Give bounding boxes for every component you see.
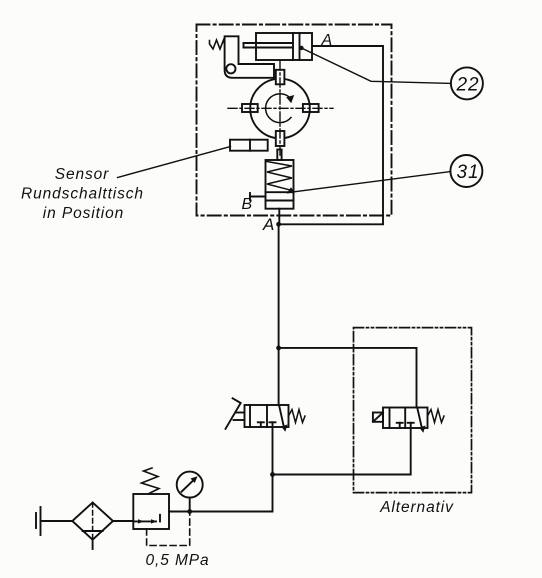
wire valve V1 bottom to supply (272, 427, 274, 512)
valve V1 roller lever actuator (226, 398, 245, 429)
valve V1 body (245, 405, 289, 427)
regulator flow arrow (133, 515, 160, 524)
wire alternative valve return (273, 428, 411, 475)
lock valve spring (267, 162, 292, 191)
svg-text:31: 31 (457, 162, 480, 183)
centerline horizontal dash-dot (228, 107, 333, 109)
filter water separator (72, 503, 113, 550)
regulator spring (142, 468, 160, 494)
wire source to filter (41, 520, 73, 522)
rotation arc arrow (266, 94, 295, 123)
port B blocked (250, 193, 266, 200)
svg-text:Alternativ: Alternativ (379, 499, 454, 516)
enclosure dash-dot box station (197, 25, 392, 216)
gauge (177, 472, 203, 514)
valve V1 blocked port T right (270, 422, 276, 427)
leader sensor text (118, 147, 231, 178)
balloon 22 (451, 67, 483, 99)
valve V1 spring (289, 410, 306, 423)
node A junction (262, 215, 281, 234)
pawl bracket lever (225, 36, 274, 78)
spring pawl return (210, 40, 225, 49)
slot W (242, 104, 258, 112)
valve V2 solenoid (373, 413, 383, 422)
wire to alternative valve top (279, 348, 417, 408)
svg-text:A: A (262, 215, 275, 234)
slot S (276, 131, 285, 146)
valve V1 flow path arrow (279, 405, 288, 432)
alternative dash-dot box (354, 328, 472, 493)
valve V2 spring (428, 410, 445, 423)
valve V2 blocked port T left (397, 423, 403, 428)
junction alt feed (276, 346, 281, 351)
lock valve piston lines (266, 192, 294, 200)
regulator body (133, 494, 169, 529)
svg-text:Sensor: Sensor (55, 166, 110, 183)
pressure source (36, 507, 41, 535)
wire cylinder port to node A (281, 46, 384, 224)
lock valve tappet (277, 150, 281, 161)
valve V1 blocked port T left (258, 422, 264, 427)
cylinder C1 body (256, 33, 312, 60)
balloon 31 (450, 155, 482, 187)
lock valve 31 body (266, 160, 294, 209)
wire regulator output (169, 511, 273, 513)
valve V2 blocked port T right (408, 423, 414, 428)
valve V2 body (383, 408, 428, 429)
valve V2 flow path arrow (417, 408, 425, 433)
svg-text:0,5 MPa: 0,5 MPa (146, 552, 210, 569)
wire main vertical (278, 224, 280, 405)
slot N (276, 70, 285, 85)
svg-text:in Position: in Position (43, 205, 124, 222)
pilot dashed line (147, 514, 190, 546)
rotary index table outer circle (250, 79, 310, 139)
sensor block (230, 140, 268, 151)
wire lock valve to node A (278, 209, 280, 225)
text sensor label (21, 166, 144, 222)
svg-text:22: 22 (456, 75, 480, 96)
cylinder rod (244, 43, 294, 48)
leader line to balloon 22 (299, 46, 451, 84)
wire filter to regulator (113, 520, 133, 522)
svg-text:Rundschalttisch: Rundschalttisch (21, 186, 144, 203)
centerline vertical dash-dot (279, 61, 281, 157)
junction alt return (270, 472, 275, 477)
svg-text:B: B (242, 196, 254, 213)
slot E (303, 104, 319, 112)
leader to balloon 31 (287, 172, 451, 194)
